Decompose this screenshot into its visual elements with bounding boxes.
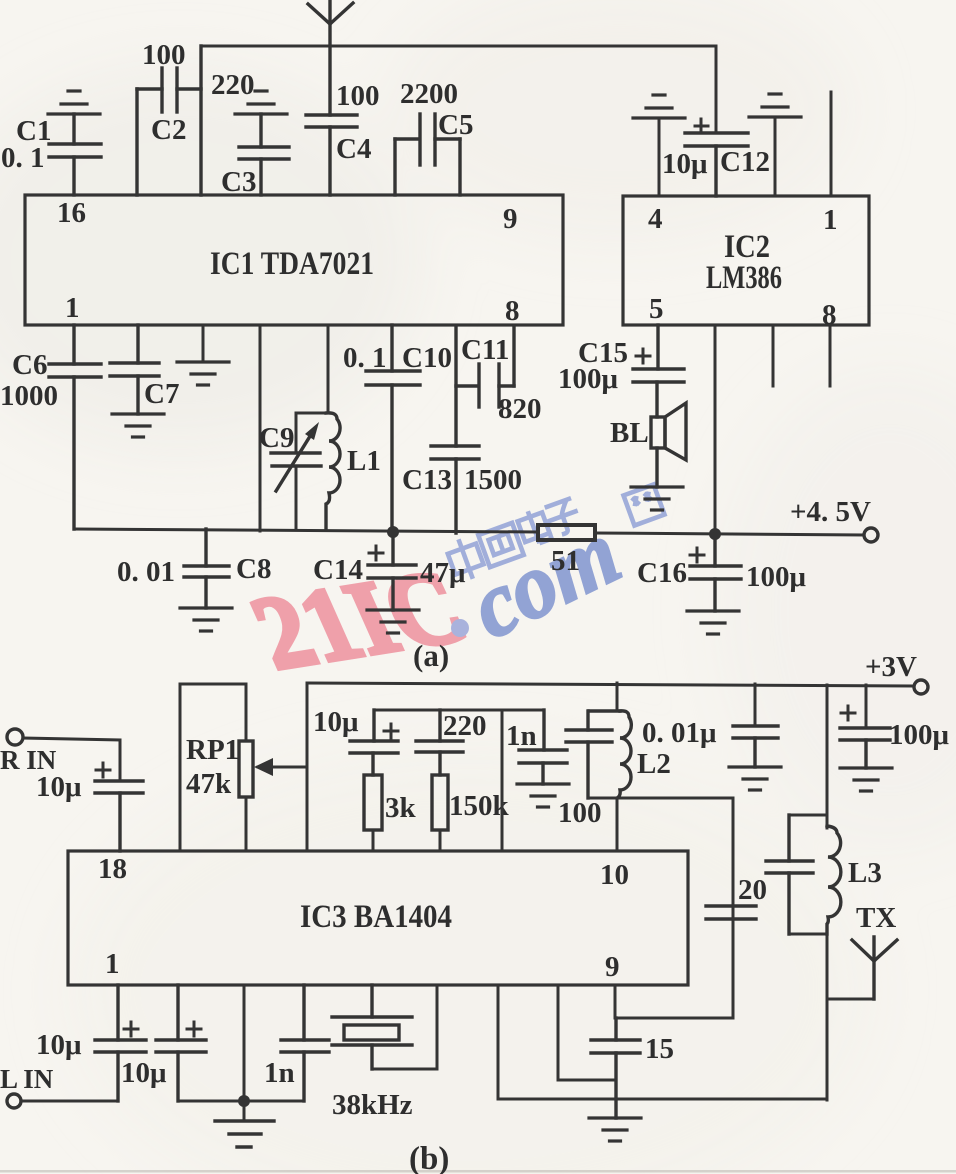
wire L3 down [826,934,829,1100]
resistor 150k [432,775,448,830]
capacitor C6 [49,325,101,529]
svg-text:47μ: 47μ [420,557,466,589]
capacitor 10u L input [95,985,146,1101]
svg-text:C13: C13 [402,464,452,496]
terminal +4.5V [864,528,878,542]
capacitor 1n bottom [244,985,329,1101]
svg-text:C6: C6 [12,349,47,381]
wire pin 9 link [615,985,733,1018]
ground under BL [631,487,683,510]
svg-text:15: 15 [645,1033,674,1065]
wire antenna feed [827,998,874,1001]
wire pin jog [558,985,616,1080]
capacitor 220 [416,710,463,775]
inductor L1 [326,413,340,530]
capacitor 1n bias [519,710,567,784]
resistor 3k [364,775,382,830]
inductor L2 [617,711,631,798]
svg-text:20: 20 [738,874,767,906]
svg-text:C2: C2 [151,114,186,146]
capacitor C16 [690,534,741,611]
ground under 0.01u [729,767,781,790]
capacitor C13 [431,326,479,533]
svg-text:IC1 TDA7021: IC1 TDA7021 [210,246,374,282]
svg-text:L3: L3 [848,857,882,889]
ground center [215,1121,274,1147]
wire IC2 pin6 to rail [714,325,717,534]
svg-text:BL: BL [610,417,649,449]
svg-text:10: 10 [600,859,629,891]
svg-text:47k: 47k [186,768,232,800]
svg-text:IC3 BA1404: IC3 BA1404 [300,899,452,935]
tank L3 with capacitor [766,685,827,934]
svg-text:9: 9 [503,203,518,235]
tank L2 with capacitor 100 [566,683,620,798]
node junction dot [709,528,721,540]
svg-text:1000: 1000 [0,380,58,412]
scan line bottom [0,1170,956,1173]
node junction dot [238,1095,250,1107]
svg-text:0. 01: 0. 01 [117,556,175,588]
svg-text:1: 1 [105,948,120,980]
svg-text:0. 01μ: 0. 01μ [642,717,717,749]
wire +3V top rail [307,683,913,686]
capacitor C1 [49,114,101,195]
svg-text:100μ: 100μ [889,719,950,751]
capacitor C14 [368,532,416,610]
crystal 38kHz [332,985,437,1069]
capacitor C8 [184,529,229,608]
svg-text:(b): (b) [409,1141,449,1174]
node C9/L1 top [296,325,328,530]
svg-text:(a): (a) [413,638,449,673]
wire IC1 pin down to rail [259,325,262,531]
svg-text:1500: 1500 [464,464,522,496]
wire pin to bottom rail [498,985,827,1099]
svg-text:RP1: RP1 [186,734,239,766]
wire IC2 pin1 stub [830,92,833,196]
svg-text:0. 1: 0. 1 [1,142,45,174]
terminal +3V [914,680,928,694]
svg-text:C10: C10 [402,342,452,374]
wire pin10 drop [616,798,619,851]
svg-text:L1: L1 [347,445,381,477]
svg-text:10μ: 10μ [313,706,359,738]
svg-text:100: 100 [142,39,186,71]
IC U3 BA1404 box [68,851,688,985]
svg-text:C5: C5 [438,109,473,141]
wire sub rail [374,709,544,712]
ground above C3 [235,91,287,114]
svg-text:220: 220 [211,69,255,101]
terminal R IN [7,729,23,745]
IC U2 LM386 box [623,196,869,325]
variable capacitor C9 [271,433,321,491]
svg-text:9: 9 [605,951,620,983]
ground right of C12 [749,94,801,117]
wire wiper riser [306,683,309,851]
svg-text:220: 220 [443,710,487,742]
wire R IN to cap [23,738,120,781]
potentiometer RP1 47k [180,684,307,851]
svg-text:18: 18 [98,853,127,885]
capacitor 0.01u [733,684,778,767]
svg-text:10μ: 10μ [121,1057,167,1089]
wire L2 bottom rail [588,797,733,800]
svg-text:38kHz: 38kHz [332,1089,413,1121]
capacitor 15 [591,1018,640,1118]
svg-text:C16: C16 [637,557,687,589]
node junction dot [387,526,399,538]
ground under C8 [180,608,232,631]
ground under C7 [112,414,164,437]
capacitor C3 [239,114,289,195]
wire pin riser [501,710,504,851]
antenna TX [852,937,897,999]
ground IC1 pin3 [202,325,205,362]
resistor R 51 [538,525,595,540]
inductor L3 [827,826,841,934]
svg-text:1: 1 [823,204,838,236]
wire bottom rail left [74,529,538,532]
capacitor C7 [110,325,159,414]
svg-text:L IN: L IN [0,1064,54,1094]
IC U1 TDA7021 box [25,195,563,325]
svg-text:TX: TX [856,902,896,934]
svg-text:+4. 5V: +4. 5V [790,496,871,528]
svg-text:C11: C11 [461,334,509,366]
svg-text:2200: 2200 [400,78,458,110]
svg-text:820: 820 [498,393,542,425]
ground under C14 [367,610,419,633]
capacitor C4 [306,115,357,195]
svg-text:100μ: 100μ [558,363,619,395]
capacitor 10u right input [95,763,143,851]
svg-text:10μ: 10μ [36,771,82,803]
svg-text:8: 8 [505,295,520,327]
svg-text:150k: 150k [449,790,510,822]
svg-text:C7: C7 [144,378,179,410]
capacitor C12 [685,119,748,196]
svg-text:C3: C3 [221,166,256,198]
svg-text:1n: 1n [264,1057,295,1089]
wire IC2 stub pin [772,325,775,386]
svg-text:0. 1: 0. 1 [343,342,387,374]
capacitor C11 [456,326,514,407]
svg-text:C8: C8 [236,553,271,585]
ground under 100u [840,768,892,791]
ground at IC2 pin 4 [633,95,685,118]
ground under C16 [687,611,739,634]
svg-text:10μ: 10μ [36,1029,82,1061]
svg-text:LM386: LM386 [706,260,782,296]
capacitor C5 [395,114,460,195]
capacitor 10u second [156,985,244,1101]
svg-text:100: 100 [336,80,380,112]
svg-text:51: 51 [551,545,580,577]
capacitor C15 [633,325,684,417]
wire IC2 stub pin [829,325,832,386]
svg-text:+3V: +3V [865,651,917,683]
capacitor 20 [706,798,756,1018]
svg-text:100: 100 [558,797,602,829]
svg-text:5: 5 [649,293,664,325]
svg-text:1: 1 [65,292,80,324]
svg-text:16: 16 [57,197,86,229]
svg-text:C4: C4 [336,133,371,165]
speaker BL [651,403,686,487]
svg-text:1n: 1n [506,720,537,752]
ground above C1 [48,91,100,114]
svg-text:100μ: 100μ [746,561,807,593]
ground under 15 [589,1118,641,1141]
wire top bus [201,45,716,48]
svg-text:C14: C14 [313,554,363,586]
capacitor 10u bias [350,710,398,775]
svg-text:C9: C9 [259,422,294,454]
capacitor C10 [366,325,420,531]
svg-text:10μ: 10μ [662,148,708,180]
capacitor C2 [137,46,201,195]
wire bottom rail right to supply [595,533,864,535]
capacitor 100u supply [840,685,890,768]
svg-text:C12: C12 [720,146,770,178]
wire center ground pin [243,985,246,1120]
svg-text:3k: 3k [385,792,417,824]
wire bus drop to C12 [715,46,718,133]
ground under 1n [517,784,569,807]
svg-text:L2: L2 [637,748,671,780]
svg-text:4: 4 [648,203,663,235]
antenna RX [308,0,353,115]
terminal L IN [21,1100,118,1103]
WATERMARK [236,484,665,691]
